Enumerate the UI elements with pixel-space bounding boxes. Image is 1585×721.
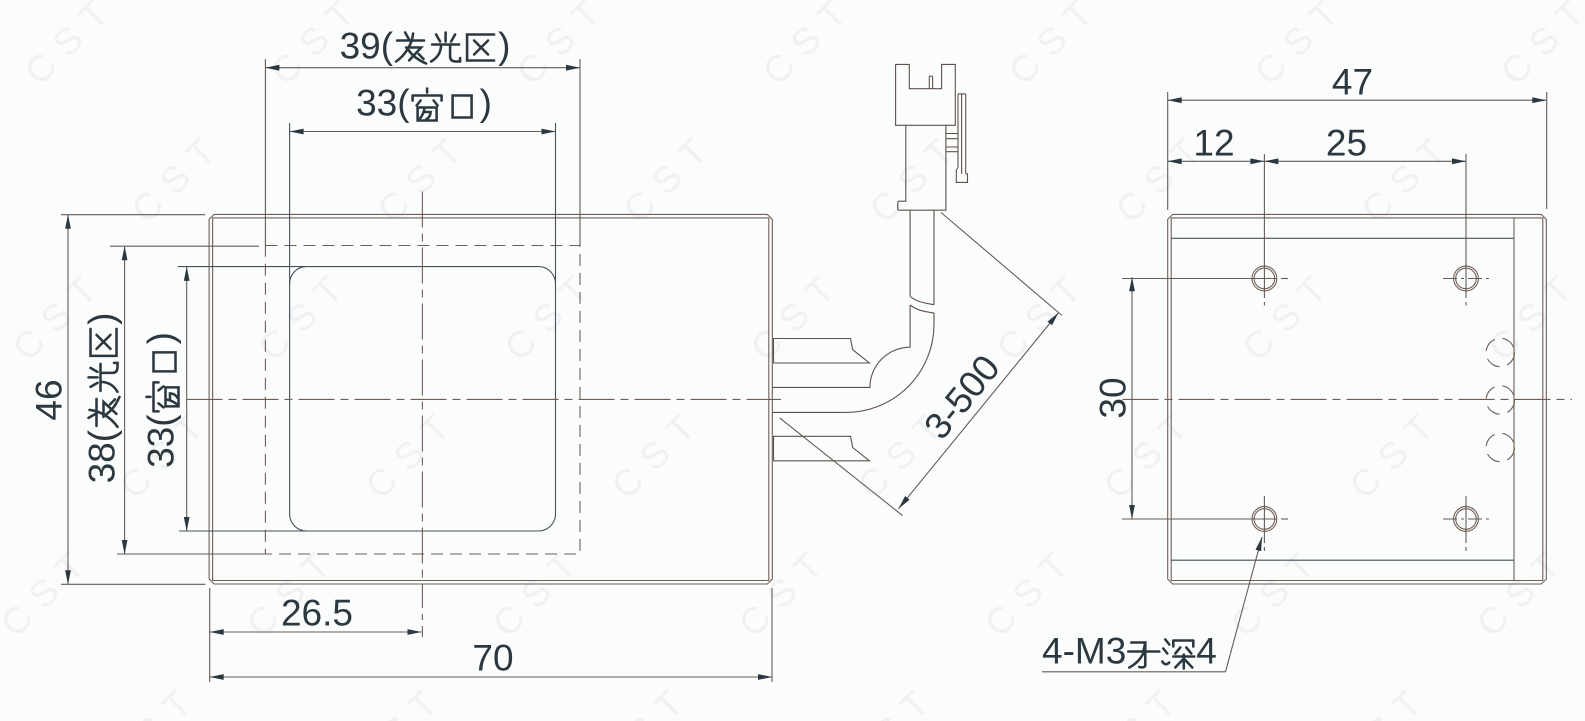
svg-text:): ) — [82, 313, 123, 325]
svg-text:30: 30 — [1093, 377, 1134, 418]
svg-text:33(: 33( — [141, 414, 182, 468]
svg-text:26.5: 26.5 — [281, 593, 353, 634]
svg-text:25: 25 — [1326, 123, 1367, 164]
svg-text:38(: 38( — [82, 429, 123, 483]
svg-text:12: 12 — [1193, 123, 1234, 164]
svg-text:46: 46 — [29, 379, 70, 420]
svg-text:): ) — [498, 26, 510, 67]
svg-text:47: 47 — [1332, 62, 1373, 103]
svg-text:39(: 39( — [340, 26, 394, 67]
svg-text:): ) — [480, 83, 492, 124]
svg-text:70: 70 — [472, 638, 513, 679]
svg-text:4-M3: 4-M3 — [1042, 631, 1126, 672]
svg-text:33(: 33( — [356, 83, 410, 124]
svg-text:4: 4 — [1196, 631, 1217, 672]
svg-text:): ) — [141, 332, 182, 344]
